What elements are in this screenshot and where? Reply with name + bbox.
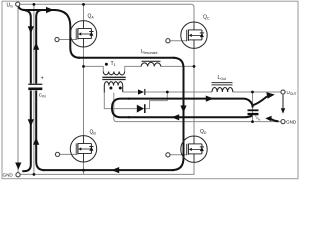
wire: gate Q_B <box>60 153 77 155</box>
terminal U_IN <box>16 2 20 6</box>
Q_D gate terminal <box>166 153 170 157</box>
wire: primary wire from left leg to T1 <box>84 66 104 71</box>
wire: gate Q_C <box>170 40 187 42</box>
primary winding (arcs down) <box>103 72 124 75</box>
terminal U_OUT <box>281 90 285 94</box>
arrow up on C_IN right line (lower) <box>33 138 39 145</box>
bold: C_out top stub to U_OUT arrow <box>253 96 267 105</box>
bold: racetrack bottom side necking into C_out <box>128 116 252 118</box>
svg-text:+: + <box>41 76 44 82</box>
wire: center tap down and bottom output rail <box>114 93 281 122</box>
Q_C gate terminal <box>166 39 170 43</box>
wire: secondary left end down to diode D2 <box>104 93 136 109</box>
svg-text:Uin: Uin <box>7 2 13 8</box>
wire: gate Q_A <box>59 39 76 41</box>
T1 phase dot primary <box>105 63 108 66</box>
svg-text:QD: QD <box>200 129 207 135</box>
output capacitor C_out <box>248 109 263 122</box>
wire: T1 primary to L_res step <box>125 66 142 71</box>
arrow left at GND right <box>265 116 271 122</box>
svg-text:IResonant: IResonant <box>141 49 157 55</box>
svg-text:QA: QA <box>88 14 95 20</box>
arrow down on C_IN left line (upper) <box>28 26 34 33</box>
T1 phase dot secondary 1 <box>109 87 112 90</box>
svg-text:GND: GND <box>286 120 297 125</box>
wire: L_res to right leg <box>161 65 194 67</box>
diode D1 (top rectifier) <box>138 89 145 95</box>
wire: gate Q_D <box>170 154 187 156</box>
output voltage arrow <box>282 95 284 110</box>
bold: start at U_IN <box>19 7 26 10</box>
bold: C_out bottom stub from GND right <box>271 119 279 122</box>
wire: U_IN down to GND left <box>17 6 19 172</box>
junction dots <box>33 3 36 6</box>
arrow down on C_IN left line (lower) <box>28 119 34 126</box>
arrow right on racetrack top <box>206 96 214 102</box>
wire: C_IN center branch lower <box>33 91 35 175</box>
svg-text:QB: QB <box>90 130 97 136</box>
bold: primary run to right <box>78 57 175 59</box>
wire: top output rail <box>145 91 212 93</box>
MOSFET Q_B <box>70 136 96 162</box>
arrow right on top bold run <box>46 7 54 13</box>
bold: top horizontal run <box>23 9 57 11</box>
wire: left leg upper (rail to Q_A) <box>83 4 85 21</box>
output inductor L_Out <box>212 83 233 92</box>
bold: racetrack top side necking into C_out <box>128 99 253 108</box>
secondary winding (tall arcs up) <box>104 82 122 93</box>
arrow right-up at U_OUT <box>266 92 275 99</box>
bold: return into C_IN bottom <box>36 91 44 171</box>
svg-text:LOut: LOut <box>218 75 227 81</box>
bold: racetrack left end cap <box>112 99 130 118</box>
svg-text:T1: T1 <box>111 61 116 67</box>
svg-text:CIN: CIN <box>39 92 46 98</box>
diode D2 (bottom rectifier, bold) <box>137 104 145 113</box>
bold: bottom return run <box>43 169 175 171</box>
svg-text:UOUT: UOUT <box>287 90 297 96</box>
Q_A gate terminal <box>55 37 59 41</box>
bold: Q_A bypass curve <box>54 10 80 58</box>
arrow left on racetrack bottom <box>172 114 180 120</box>
MOSFET Q_A <box>70 21 96 47</box>
arrow up on C_IN right line (upper) <box>33 43 39 50</box>
MOSFET Q_D <box>181 136 207 162</box>
wire: top rail from U_IN to right leg <box>20 4 194 22</box>
wire: C_out branch <box>252 92 254 122</box>
bold: C_IN bottom exit toward GND left <box>22 91 31 172</box>
wire: left leg Q_A to Q_B <box>83 47 85 136</box>
terminal GND left <box>16 173 20 177</box>
svg-text:QC: QC <box>203 15 210 21</box>
arrow down to GND left terminal <box>15 163 21 170</box>
bold: branch down into C_IN top <box>25 10 31 83</box>
wire: D2 cathode jog up to output node <box>145 92 168 109</box>
arrow down on right bold leg <box>180 106 186 113</box>
MOSFET Q_C <box>181 22 207 48</box>
svg-text:GND: GND <box>3 173 14 178</box>
terminal GND right <box>281 120 285 124</box>
T1 phase dot secondary 2 <box>119 87 122 90</box>
wire: bottom rail <box>20 162 194 174</box>
bold: C_IN up branch to top run <box>36 10 42 84</box>
core bars <box>102 76 125 78</box>
resonant inductor <box>141 61 161 66</box>
wire: secondary right end to diode D1 <box>123 91 138 93</box>
bold: corner down the right bold leg <box>173 58 184 159</box>
arrow left on bottom return <box>112 167 120 173</box>
input capacitor C_IN <box>28 76 46 99</box>
frame border <box>2 1 298 179</box>
svg-text:COut: COut <box>253 114 262 122</box>
Q_B gate terminal <box>55 152 59 156</box>
bold: corner into bottom return <box>172 158 184 170</box>
wire: C_IN center branch upper <box>33 4 35 83</box>
wire: right leg Q_C to Q_D <box>193 48 195 136</box>
wire: left leg below Q_B <box>83 162 85 175</box>
